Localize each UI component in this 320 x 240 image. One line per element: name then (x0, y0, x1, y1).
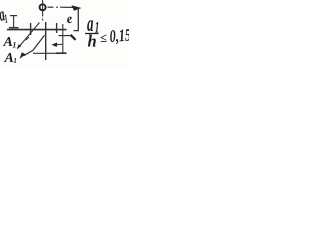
svg-text:0,15: 0,15 (109, 27, 129, 47)
svg-text:h: h (88, 31, 97, 50)
svg-text:≤: ≤ (100, 31, 107, 45)
